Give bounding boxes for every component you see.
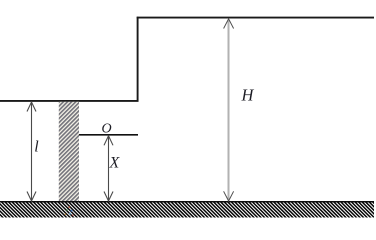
arrow H dimension [224, 19, 234, 201]
svg-text:O: O [102, 121, 112, 136]
wire top edge of platform [137, 17, 374, 19]
node O line [79, 134, 138, 136]
arrow l dimension [27, 102, 36, 201]
artifact colored speck in ground [65, 207, 74, 216]
svg-text:H: H [241, 86, 255, 105]
svg-text:l: l [34, 139, 39, 156]
ground line [0, 201, 374, 203]
ground hatch band [0, 203, 374, 218]
column hatched pillar [59, 102, 79, 201]
svg-text:X: X [109, 154, 121, 171]
wire step vertical edge [137, 17, 139, 102]
arrow X dimension [104, 136, 113, 201]
wire shelf edge left [0, 100, 139, 102]
